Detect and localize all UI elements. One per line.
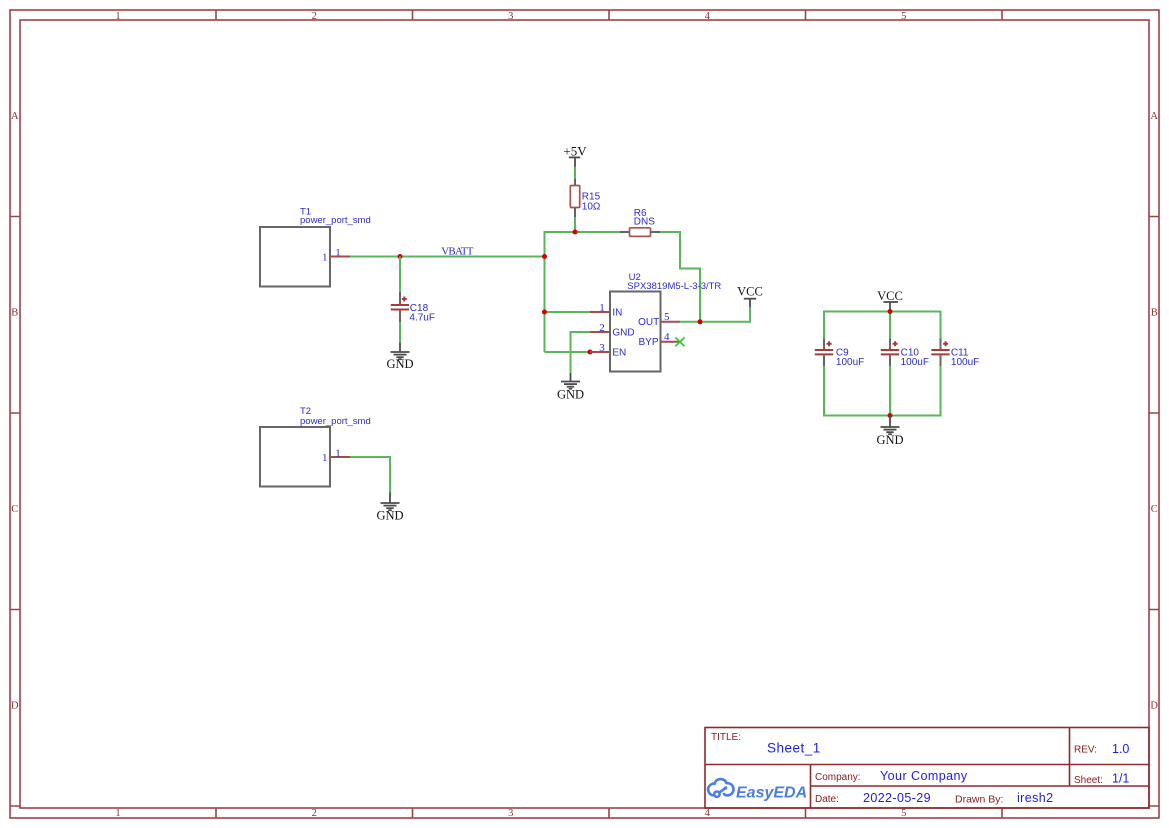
wire to IN pin	[545, 311, 591, 313]
svg-text:10Ω: 10Ω	[582, 202, 601, 213]
svg-text:2022-05-29: 2022-05-29	[863, 791, 931, 805]
svg-text:TITLE:: TITLE:	[711, 732, 741, 743]
power port T2	[260, 406, 371, 487]
capacitor C10	[881, 339, 929, 368]
IC U2 SPX3819M5	[610, 272, 721, 372]
svg-text:4: 4	[705, 808, 711, 819]
wire C18 to ground	[399, 322, 401, 343]
svg-text:Date:: Date:	[815, 794, 839, 805]
svg-text:1: 1	[115, 808, 120, 819]
svg-text:GND: GND	[612, 328, 634, 339]
svg-text:iresh2: iresh2	[1017, 791, 1053, 805]
svg-text:C: C	[11, 504, 18, 515]
svg-text:Sheet:: Sheet:	[1074, 775, 1103, 786]
svg-text:B: B	[11, 308, 18, 319]
svg-text:VCC: VCC	[737, 285, 763, 299]
wire C18 top branch	[399, 257, 401, 293]
svg-text:EN: EN	[612, 348, 626, 359]
svg-text:GND: GND	[876, 433, 903, 447]
wire to EN pin	[545, 351, 591, 353]
svg-text:power_port_smd: power_port_smd	[300, 416, 371, 427]
svg-text:100uF: 100uF	[901, 357, 929, 368]
ground GND at T2	[376, 493, 403, 523]
svg-text:Company:: Company:	[815, 772, 861, 783]
wire R15 to rail	[574, 217, 576, 232]
resistor R6	[620, 208, 660, 236]
node junction VCC rail	[888, 309, 893, 314]
svg-text:VBATT: VBATT	[441, 246, 474, 258]
svg-text:C: C	[1151, 504, 1158, 515]
svg-text:Sheet_1: Sheet_1	[767, 740, 821, 755]
svg-text:1: 1	[335, 247, 341, 259]
capacitor C11	[931, 339, 979, 368]
no-connect flag on BYP	[675, 337, 684, 346]
capacitor C18	[391, 292, 435, 323]
wire +5V to R15	[574, 167, 576, 179]
wire T2 to ground	[350, 457, 390, 493]
svg-text:+5V: +5V	[563, 143, 587, 158]
svg-text:4: 4	[664, 331, 670, 343]
power +5V	[563, 143, 587, 166]
svg-text:DNS: DNS	[634, 217, 655, 228]
svg-text:1: 1	[322, 251, 328, 263]
svg-text:A: A	[11, 111, 19, 122]
ground GND under C18	[386, 343, 413, 372]
pin 1 of T1	[322, 247, 350, 264]
svg-text:B: B	[1151, 308, 1158, 319]
svg-text:1: 1	[599, 302, 605, 314]
pin 5 OUT of U2	[638, 311, 680, 328]
wire R6 staircase to OUT net	[660, 232, 700, 322]
svg-text:Your Company: Your Company	[880, 769, 968, 783]
svg-text:100uF: 100uF	[836, 357, 864, 368]
svg-text:1: 1	[322, 452, 328, 464]
svg-text:4: 4	[705, 11, 711, 22]
svg-text:1.0: 1.0	[1112, 742, 1129, 756]
svg-text:VCC: VCC	[877, 289, 903, 303]
svg-text:REV:: REV:	[1074, 745, 1097, 756]
node junction on IN drop	[542, 310, 547, 315]
svg-text:4.7uF: 4.7uF	[409, 312, 435, 323]
node junction VBATT on drop	[542, 254, 547, 259]
node junction R15 / rail	[573, 230, 578, 235]
svg-text:SPX3819M5-L-3-3/TR: SPX3819M5-L-3-3/TR	[627, 281, 721, 292]
power VCC above capacitor bank	[877, 289, 903, 312]
capacitor C9	[815, 339, 864, 368]
svg-text:GND: GND	[376, 508, 403, 522]
node junction bottom rail	[888, 413, 893, 418]
svg-text:2: 2	[312, 808, 317, 819]
svg-text:3: 3	[599, 342, 605, 354]
svg-text:D: D	[11, 701, 19, 712]
svg-text:3: 3	[508, 11, 513, 22]
ground GND under capacitor bank	[876, 416, 903, 447]
pin 1 of T2	[322, 447, 350, 464]
wire GND pin branch	[571, 332, 591, 373]
wire rail and left drop	[545, 232, 621, 352]
svg-text:IN: IN	[612, 308, 622, 319]
pin 4 BYP of U2	[638, 331, 680, 348]
node junction on OUT wire	[698, 319, 703, 324]
node junction at EN pin	[588, 350, 593, 355]
ground GND under U2	[557, 373, 584, 402]
pin 2 GND of U2	[590, 322, 635, 339]
svg-text:GND: GND	[557, 388, 584, 402]
svg-text:power_port_smd: power_port_smd	[300, 215, 371, 226]
svg-text:5: 5	[664, 311, 670, 323]
svg-text:2: 2	[599, 322, 605, 334]
svg-text:D: D	[1150, 701, 1158, 712]
resistor R15	[570, 179, 601, 218]
svg-text:5: 5	[901, 11, 906, 22]
pin 3 EN of U2	[590, 342, 626, 359]
power VCC at OUT	[737, 285, 763, 308]
svg-text:GND: GND	[386, 357, 413, 371]
wire capacitor bank rails	[824, 312, 941, 416]
wire OUT to VCC	[680, 307, 750, 322]
svg-text:BYP: BYP	[638, 337, 658, 348]
svg-text:1: 1	[115, 11, 120, 22]
node junction T1/C18	[398, 254, 403, 259]
svg-text:5: 5	[901, 808, 906, 819]
power port T1	[260, 206, 371, 286]
title block	[705, 728, 1149, 809]
svg-text:EasyEDA: EasyEDA	[736, 785, 807, 802]
svg-text:1: 1	[335, 447, 341, 459]
wire VBATT	[350, 256, 545, 258]
svg-text:1/1: 1/1	[1112, 772, 1129, 786]
pin 1 IN of U2	[590, 302, 622, 319]
svg-text:2: 2	[312, 11, 317, 22]
svg-text:OUT: OUT	[638, 317, 659, 328]
svg-text:Drawn By:: Drawn By:	[955, 793, 1003, 805]
svg-text:3: 3	[508, 808, 513, 819]
svg-text:100uF: 100uF	[951, 357, 979, 368]
svg-text:A: A	[1150, 111, 1158, 122]
